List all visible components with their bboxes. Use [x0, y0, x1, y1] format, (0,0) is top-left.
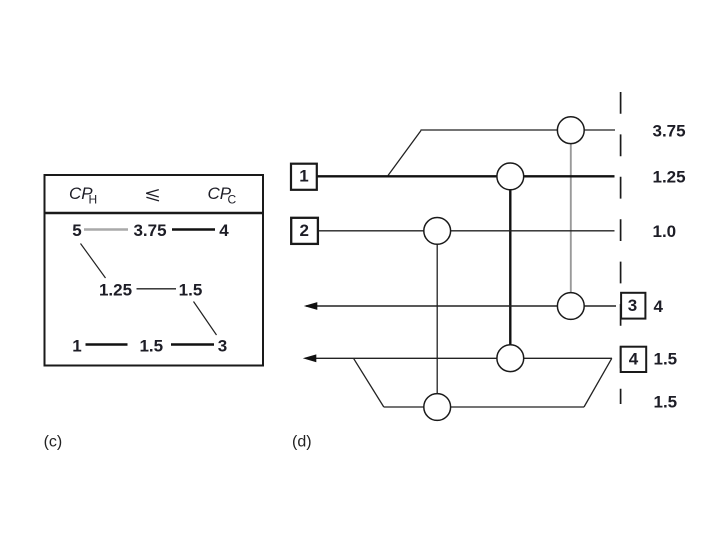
- svg-text:1.5: 1.5: [139, 337, 163, 356]
- svg-text:1: 1: [299, 167, 308, 186]
- svg-text:H: H: [89, 193, 98, 207]
- svg-text:(d): (d): [292, 434, 312, 451]
- svg-text:(c): (c): [44, 434, 63, 451]
- svg-text:1: 1: [72, 337, 81, 356]
- svg-text:1.5: 1.5: [654, 349, 678, 368]
- svg-text:1.5: 1.5: [179, 281, 203, 300]
- svg-text:4: 4: [219, 221, 229, 240]
- svg-text:1.25: 1.25: [99, 281, 132, 300]
- svg-text:1.0: 1.0: [653, 222, 677, 241]
- svg-text:4: 4: [654, 297, 664, 316]
- svg-text:1.25: 1.25: [653, 168, 686, 187]
- svg-text:3: 3: [628, 296, 637, 315]
- svg-text:5: 5: [72, 221, 81, 240]
- svg-text:3.75: 3.75: [653, 121, 686, 140]
- svg-text:C: C: [228, 193, 237, 207]
- svg-text:4: 4: [629, 350, 639, 369]
- svg-text:3.75: 3.75: [133, 221, 166, 240]
- svg-text:3: 3: [218, 337, 227, 356]
- svg-text:1.5: 1.5: [654, 392, 678, 411]
- svg-text:2: 2: [299, 221, 308, 240]
